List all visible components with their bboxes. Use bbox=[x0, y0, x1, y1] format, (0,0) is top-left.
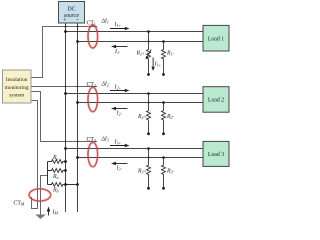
resistor R3- (load3 negative insulation resistance) bbox=[162, 158, 166, 189]
CT1 current transformer bbox=[88, 25, 98, 48]
current arrow I1- feeder (left) bbox=[114, 46, 128, 48]
svg-text:Ra: Ra bbox=[52, 174, 59, 180]
resistor R2+ (load2 positive insulation resistance) bbox=[147, 94, 151, 134]
svg-text:CTM: CTM bbox=[14, 201, 25, 207]
Insulation monitoring system box bbox=[3, 70, 32, 103]
current arrow I2- feeder bbox=[114, 108, 128, 110]
svg-text:ΔI2: ΔI2 bbox=[101, 82, 109, 88]
resistor Rb (bottom row, common point to negative bus) bbox=[48, 183, 78, 187]
resistor R3+ (load3 positive insulation resistance) bbox=[147, 149, 151, 189]
current arrow I3+ feeder bbox=[110, 145, 127, 147]
svg-text:Load 2: Load 2 bbox=[208, 98, 224, 104]
current arrow I1+ (fault current down) bbox=[152, 58, 154, 69]
wire feeder L2- bbox=[78, 102, 204, 104]
node -bus (negative bus vertical) bbox=[77, 23, 79, 212]
CT_M current transformer (earth path) bbox=[29, 189, 51, 201]
resistor Ra (middle row, common point to bus) bbox=[48, 169, 66, 173]
svg-text:ΔI3: ΔI3 bbox=[101, 137, 109, 143]
wire IMD sense lead to CT3 bbox=[31, 92, 97, 142]
svg-text:-: - bbox=[76, 16, 78, 23]
wire IMD earth lead through CT_M with hook bbox=[31, 101, 38, 209]
Load 3 box bbox=[203, 141, 229, 166]
current arrow I1+ feeder (right) bbox=[110, 28, 127, 30]
wire common vertical joining resistor left ends bbox=[47, 162, 49, 185]
current arrow IM (up, at earth connection) bbox=[48, 210, 50, 216]
wire feeder L2+ bbox=[66, 93, 204, 95]
Load 1 box bbox=[203, 25, 229, 51]
svg-text:Load 1: Load 1 bbox=[208, 37, 224, 43]
svg-text:I2-: I2- bbox=[116, 111, 123, 117]
wire IMD sense lead to CT1 bbox=[31, 27, 97, 78]
junction dots bbox=[64, 26, 165, 190]
resistor R1+ (load1 positive insulation resistance, variable) bbox=[147, 32, 151, 75]
CT3 current transformer bbox=[88, 142, 98, 166]
DC source box bbox=[59, 2, 85, 24]
svg-text:Rc: Rc bbox=[52, 155, 59, 161]
svg-text:Insulation: Insulation bbox=[6, 77, 28, 83]
wire IMD sense lead to CT2 bbox=[31, 86, 97, 88]
svg-text:I2+: I2+ bbox=[114, 85, 122, 91]
resistor Rc (top row, common point to bus) bbox=[48, 160, 66, 164]
variable arrow on R1+ bbox=[147, 50, 151, 58]
svg-text:DC: DC bbox=[67, 7, 75, 13]
svg-text:Rb: Rb bbox=[52, 188, 59, 194]
Load 2 box bbox=[203, 87, 229, 113]
svg-text:Load 3: Load 3 bbox=[208, 152, 224, 158]
svg-text:CT1: CT1 bbox=[87, 21, 96, 27]
current arrow I3- feeder bbox=[114, 163, 128, 165]
wire feeder L3+ bbox=[66, 148, 204, 150]
ground symbol bbox=[35, 215, 46, 220]
wire feeder L1+ bbox=[66, 31, 204, 33]
svg-text:I1+: I1+ bbox=[154, 62, 162, 68]
resistor R1- (load1 negative insulation resistance) bbox=[162, 42, 166, 75]
svg-text:CT3: CT3 bbox=[87, 137, 96, 143]
svg-text:IM: IM bbox=[52, 210, 59, 216]
wire feeder L1- bbox=[78, 41, 204, 43]
CT2 current transformer bbox=[88, 87, 98, 111]
current arrow I2+ feeder bbox=[110, 90, 127, 92]
node +bus (positive bus vertical) bbox=[65, 23, 67, 212]
svg-text:I1-: I1- bbox=[114, 49, 121, 55]
wire common point to earth conductor bbox=[41, 176, 48, 215]
svg-text:ΔI1: ΔI1 bbox=[101, 19, 109, 25]
resistor R2- (load2 negative insulation resistance) bbox=[162, 103, 166, 134]
svg-text:I1+: I1+ bbox=[114, 22, 122, 28]
svg-text:I3-: I3- bbox=[116, 166, 123, 172]
svg-text:system: system bbox=[9, 93, 25, 99]
svg-text:CT2: CT2 bbox=[87, 82, 96, 88]
wire feeder L3- bbox=[78, 157, 204, 159]
svg-text:I3+: I3+ bbox=[114, 140, 122, 146]
svg-text:monitoring: monitoring bbox=[5, 85, 29, 91]
